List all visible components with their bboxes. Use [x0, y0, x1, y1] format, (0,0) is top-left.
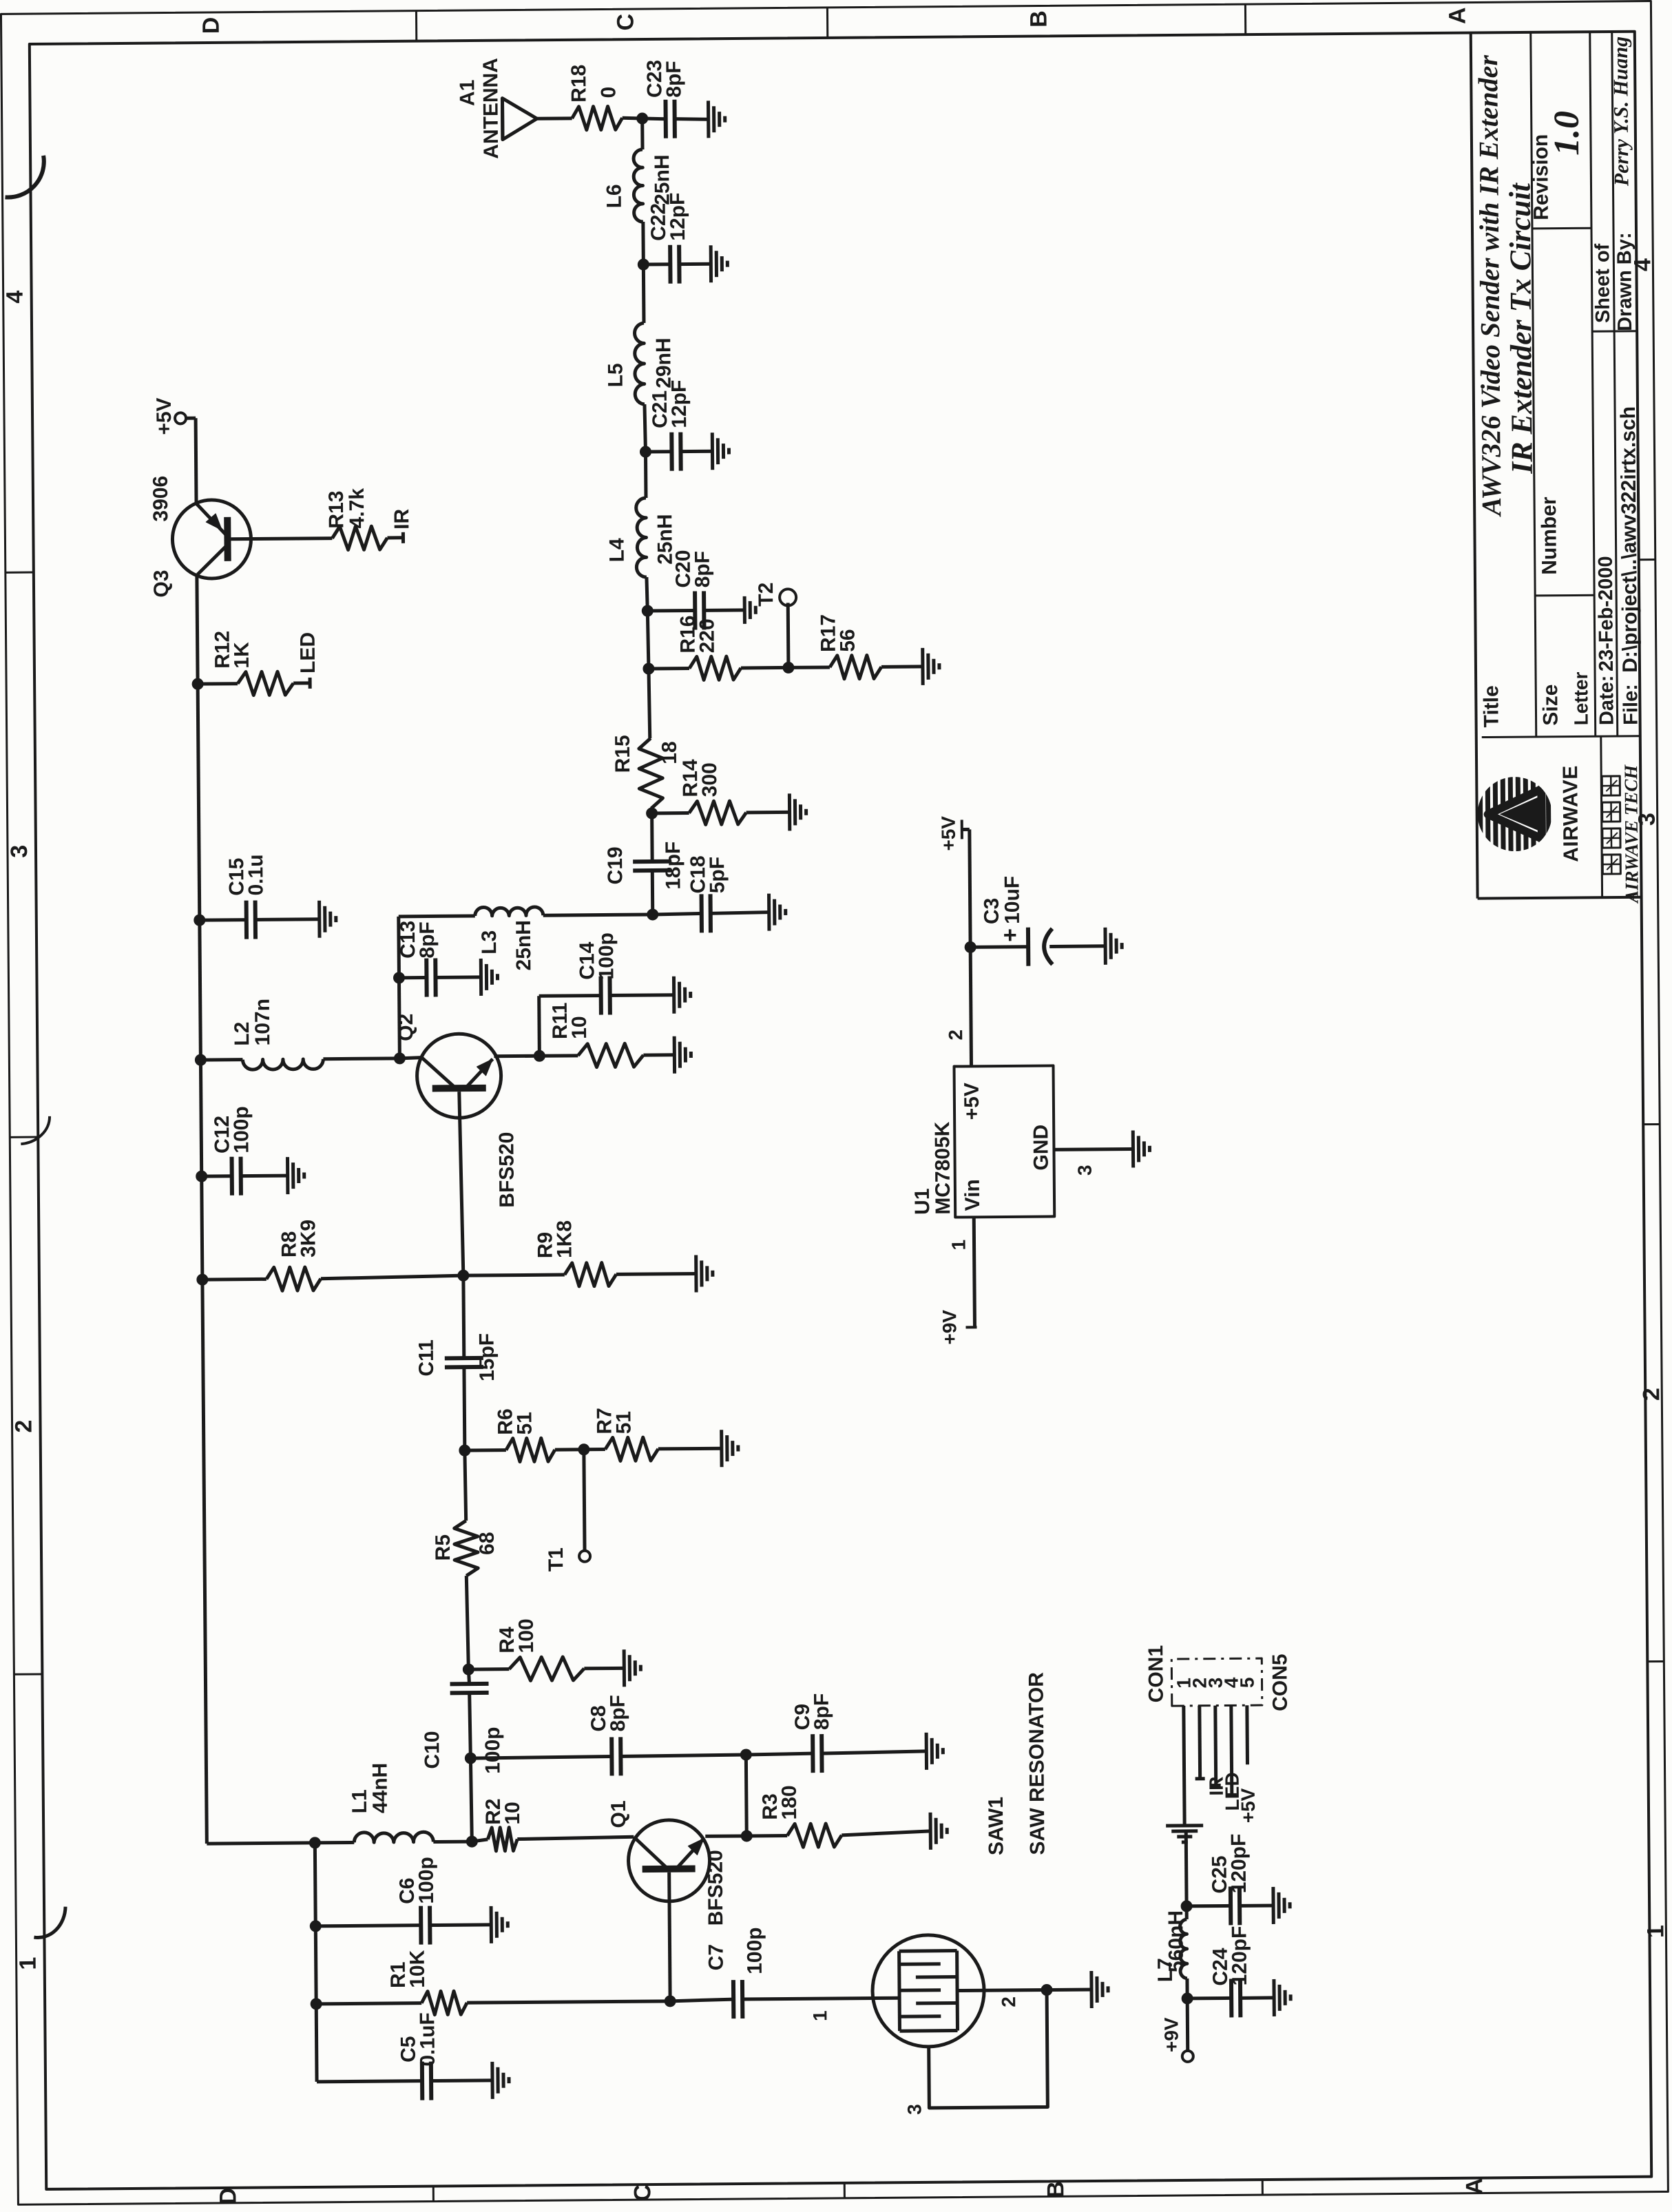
wire SAW pin3 loop [903, 1990, 1047, 2115]
svg-text:Q2: Q2 [395, 1014, 417, 1041]
node C13 tee [394, 1053, 405, 1064]
node N1 R2/C10 [466, 1836, 477, 1847]
resistor R18 0 [567, 64, 623, 130]
svg-text:3: 3 [1074, 1165, 1096, 1176]
title block labels [1476, 134, 1642, 728]
svg-text:L6: L6 [603, 184, 625, 208]
svg-text:100p: 100p [481, 1726, 505, 1774]
svg-text:Q3: Q3 [150, 570, 173, 597]
resistor R2 10 [472, 1798, 525, 1851]
capacitor C25 120pF [1186, 1833, 1273, 1926]
svg-text:560nH: 560nH [1164, 1910, 1188, 1972]
svg-text:2: 2 [945, 1030, 966, 1041]
node R12 junction on rail [192, 678, 203, 689]
ground below R9 [696, 1255, 713, 1292]
wire +5V rail right segment [194, 418, 198, 503]
svg-text:3906: 3906 [149, 476, 173, 522]
svg-text:10: 10 [568, 1016, 591, 1039]
ground below C6 [491, 1906, 508, 1943]
svg-text:100p: 100p [230, 1106, 253, 1154]
test point T1 [544, 1450, 590, 1572]
capacitor C20 8pF [647, 550, 745, 630]
svg-text:A: A [1461, 2178, 1487, 2195]
capacitor C15 0.1u [199, 854, 320, 939]
regulator U1 MC7805K [910, 1065, 1055, 1218]
wire mid line segment c [468, 1669, 469, 1684]
svg-text:100p: 100p [595, 932, 618, 980]
capacitor C3 10uF polar [970, 875, 1105, 967]
wire U1 pin3 GND [1054, 1149, 1133, 1176]
svg-text:BFS520: BFS520 [704, 1850, 727, 1926]
power terminal +9V (U1 in) [939, 1309, 976, 1344]
wire chain f [641, 222, 645, 264]
wire Q3 collector rail (to +5Vsw net) [197, 574, 207, 1844]
svg-text:Letter: Letter [1570, 671, 1592, 725]
svg-text:+9V: +9V [1160, 2017, 1182, 2052]
wire CON1 pin2 net IR [1195, 1705, 1227, 1795]
wire R1 to Q1 base node [467, 2001, 670, 2003]
ground below U1 pin3 [1133, 1130, 1149, 1167]
wire L7 to C24 [1185, 1979, 1189, 1999]
svg-text:300: 300 [698, 762, 721, 797]
ground below C18 [769, 893, 786, 930]
svg-text:1: 1 [1642, 1925, 1669, 1938]
scan artifact arcs [5, 156, 65, 1938]
logo AIRWAVE globe [1480, 774, 1549, 855]
capacitor C19 18pF (series) [604, 813, 685, 890]
node C23 junction [637, 113, 648, 124]
svg-text:0.1u: 0.1u [244, 854, 267, 895]
svg-text:L4: L4 [605, 538, 628, 563]
svg-text:1: 1 [809, 2010, 830, 2021]
resistor R7 51 [583, 1407, 722, 1461]
svg-text:A1: A1 [456, 80, 479, 107]
ground below R11 [674, 1036, 691, 1074]
wire mid line segment a [470, 1758, 472, 1841]
svg-text:SAW RESONATOR: SAW RESONATOR [1025, 1672, 1049, 1855]
svg-text:56: 56 [837, 629, 859, 652]
ground below C24 [1274, 1979, 1290, 2016]
wire L2 to C13 node [323, 1056, 399, 1061]
ground below C14 [673, 977, 690, 1014]
wire chain b [651, 808, 652, 813]
capacitor C5 0.1uF [316, 2012, 492, 2100]
ground below R17 [923, 648, 939, 685]
power terminal +5V (main rail) [153, 397, 196, 435]
svg-text:+5V: +5V [938, 816, 959, 851]
svg-text:2: 2 [10, 1420, 36, 1433]
svg-text:+5V: +5V [961, 1083, 983, 1120]
node R16 junction [643, 663, 654, 674]
resistor R13 4.7k [325, 488, 388, 550]
node R3/C8net junction [741, 1830, 752, 1841]
svg-text:AWV326 Video Sender with IR Ex: AWV326 Video Sender with IR Extender [1472, 54, 1507, 517]
svg-text:C3: C3 [981, 898, 1003, 925]
svg-text:25nH: 25nH [512, 920, 536, 971]
node C24 junction [1182, 1993, 1193, 2004]
CON1 pin 5 [1236, 1677, 1257, 1688]
svg-text:R15: R15 [612, 735, 634, 773]
wire pin2 to ground [1047, 1988, 1091, 1992]
resistor R15 18 (series) [611, 669, 682, 809]
ground below C5 [492, 2062, 509, 2099]
node Q1 base / C7 junction [665, 1996, 676, 2007]
node SAW pin2 junction [1041, 1984, 1052, 1995]
SAW resonator SAW1 [870, 1672, 1050, 2047]
ground below C15 [320, 901, 336, 938]
svg-text:AIRWAVE: AIRWAVE [1559, 765, 1582, 862]
capacitor C18 5pF [652, 855, 769, 933]
wire SAW pin2 down [959, 1990, 1047, 2008]
ground below C23 [708, 101, 724, 138]
svg-text:IR: IR [390, 508, 413, 530]
node T2 tap junction [783, 662, 794, 673]
title text [1472, 54, 1539, 518]
svg-text:IR Extender Tx Circuit: IR Extender Tx Circuit [1503, 182, 1538, 474]
svg-text:4: 4 [2, 291, 28, 304]
node C18/L3 junction [647, 909, 658, 920]
svg-text:8pF: 8pF [811, 1693, 833, 1731]
svg-text:1: 1 [948, 1240, 969, 1251]
svg-text:D: D [215, 2187, 241, 2204]
svg-text:+9V: +9V [939, 1310, 960, 1345]
svg-text:SAW1: SAW1 [985, 1797, 1008, 1855]
wire chain c [647, 611, 649, 669]
node N2 C8 net tee [465, 1753, 476, 1764]
svg-text:107n: 107n [251, 999, 275, 1046]
logo AIRWAVE wordmark [1559, 765, 1582, 862]
svg-text:L3: L3 [478, 930, 501, 954]
resistor R11 10 [539, 1001, 675, 1067]
svg-text:10uF: 10uF [1001, 876, 1024, 924]
ground below C22 [711, 245, 727, 282]
wire CON1 pin4 net +5V [1226, 1705, 1259, 1823]
capacitor C7 100p [669, 1926, 901, 2019]
wire C8 net mid [620, 1755, 746, 1756]
capacitor C10 100p (series) [421, 1684, 505, 1775]
ground below C13 [481, 959, 497, 996]
resistor R5 68 (series) [432, 1521, 499, 1576]
logo airwave tech text [1620, 764, 1642, 905]
capacitor C24 120pF [1187, 1926, 1274, 2018]
svg-text:2: 2 [1638, 1388, 1664, 1401]
svg-text:MC7805K: MC7805K [931, 1121, 954, 1215]
svg-text:51: 51 [612, 1411, 635, 1434]
svg-text:120pF: 120pF [1228, 1926, 1251, 1985]
inductor L4 25nH [605, 452, 676, 578]
node L2 junction on rail [195, 1054, 206, 1065]
capacitor C22 12pF [643, 192, 711, 284]
capacitor C14 100p [539, 932, 674, 1056]
svg-text:B: B [1043, 2181, 1069, 2198]
inductor L2 107n [200, 998, 324, 1070]
svg-text:Number: Number [1538, 497, 1561, 575]
svg-text:10: 10 [501, 1802, 524, 1825]
svg-text:R18: R18 [567, 65, 590, 103]
logo chinese text [1602, 776, 1620, 874]
node R8/R9 junction [458, 1270, 469, 1281]
svg-text:1.0: 1.0 [1547, 111, 1587, 156]
ground below C21 [712, 432, 729, 470]
svg-text:Vin: Vin [961, 1179, 984, 1211]
svg-text:3: 3 [6, 845, 32, 858]
capacitor C9 8pF [746, 1693, 927, 1773]
wire Q3 base lead [231, 539, 332, 539]
node C25 junction [1181, 1901, 1192, 1912]
node C20/T2 junction [642, 605, 653, 616]
svg-text:D:\project\..\awv322irtx.sch: D:\project\..\awv322irtx.sch [1617, 406, 1642, 673]
connector CON1 [1145, 1645, 1262, 1707]
svg-text:8pF: 8pF [416, 921, 439, 959]
revision value [1547, 111, 1587, 156]
svg-text:1K8: 1K8 [553, 1220, 576, 1258]
transistor Q1 BFS520 [607, 1799, 727, 1926]
svg-text:C: C [629, 2184, 656, 2202]
svg-text:Drawn By:: Drawn By: [1613, 232, 1636, 331]
wire C8 net vertical top [470, 1756, 612, 1758]
resistor R8 3K9 [202, 1218, 463, 1291]
svg-text:Q1: Q1 [607, 1800, 630, 1828]
wire CON1 pin1 [1184, 1706, 1184, 1826]
svg-text:AIRWAVE TECH: AIRWAVE TECH [1620, 764, 1642, 905]
svg-text:Date:: Date: [1596, 675, 1618, 725]
capacitor C23 8pF [642, 59, 709, 138]
resistor R6 51 [464, 1408, 584, 1462]
svg-text:T1: T1 [545, 1547, 567, 1572]
wire U1 pin1 Vin [948, 1217, 974, 1327]
CON1 pin 1 [1173, 1678, 1194, 1689]
svg-text:180: 180 [778, 1785, 801, 1819]
svg-text:Size: Size [1539, 685, 1562, 726]
svg-text:15pF: 15pF [476, 1333, 499, 1381]
ground small below C20 [744, 596, 755, 624]
label CON5 [1268, 1653, 1292, 1711]
capacitor C12 100p [201, 1106, 288, 1196]
svg-text:C19: C19 [604, 846, 627, 884]
svg-text:Perry Y.S. Huang: Perry Y.S. Huang [1609, 36, 1633, 187]
svg-text:8pF: 8pF [607, 1695, 629, 1732]
node C9 junction [740, 1749, 751, 1760]
node C12 junction [196, 1171, 207, 1182]
wire rail left corner drop [207, 1843, 315, 1844]
svg-text:0: 0 [597, 87, 620, 98]
node R14 junction [647, 808, 658, 819]
svg-text:4.7k: 4.7k [346, 488, 368, 528]
svg-text:D: D [198, 17, 224, 34]
svg-text:R13: R13 [325, 490, 348, 528]
inductor L5 29nH [603, 264, 676, 405]
svg-text:Sheet: Sheet [1591, 269, 1614, 324]
node C13 branch [393, 972, 404, 983]
ground below C12 [288, 1157, 304, 1194]
ground below R4 [624, 1649, 640, 1687]
svg-text:120pF: 120pF [1227, 1833, 1251, 1893]
ground below C25 [1273, 1887, 1290, 1924]
power terminal +5V (U1 out) [938, 815, 970, 851]
svg-text:BFS520: BFS520 [495, 1131, 519, 1207]
capacitor C8 8pF [587, 1695, 630, 1776]
capacitor C13 8pF [397, 920, 481, 997]
CON1 pin 4 [1220, 1677, 1242, 1688]
wire C13 net horizontal [399, 917, 400, 1058]
svg-text:L5: L5 [604, 363, 627, 387]
svg-text:18pF: 18pF [662, 842, 685, 890]
wire Q2 emitter down [494, 1054, 539, 1058]
svg-text:File:: File: [1620, 684, 1642, 725]
svg-text:5: 5 [1236, 1677, 1257, 1688]
inductor L1 44nH [314, 1762, 472, 1843]
title block frame [1471, 32, 1642, 899]
resistor R17 56 [788, 614, 923, 680]
svg-text:1: 1 [15, 1957, 41, 1970]
capacitor C6 100p [315, 1856, 492, 1945]
CON1 pin 2 [1189, 1678, 1210, 1689]
wire mid line segment d [466, 1576, 468, 1669]
wire CON1 pin5 [1245, 1705, 1249, 1764]
svg-text:23-Feb-2000: 23-Feb-2000 [1595, 556, 1618, 671]
svg-text:51: 51 [513, 1412, 536, 1435]
wire Q1 emitter down [705, 1834, 746, 1837]
svg-text:18: 18 [658, 741, 681, 764]
svg-text:+: + [997, 928, 1023, 942]
svg-text:ANTENNA: ANTENNA [479, 58, 503, 159]
svg-text:C: C [612, 14, 638, 31]
node C3 junction [965, 941, 976, 952]
node C21 junction [640, 446, 651, 457]
svg-text:Title: Title [1480, 685, 1503, 727]
resistor R14 300 [651, 758, 790, 825]
ground below C3 [1105, 928, 1122, 965]
wire chain a [651, 870, 655, 915]
ground below R14 [789, 793, 806, 831]
svg-text:3K9: 3K9 [297, 1220, 320, 1258]
svg-text:100: 100 [515, 1618, 538, 1653]
net stub LED at R12 [293, 632, 320, 689]
node R6/T1 junction [459, 1445, 470, 1456]
svg-text:100p: 100p [743, 1927, 766, 1974]
svg-text:1K: 1K [231, 642, 253, 669]
wire Q1 base lead [669, 1872, 670, 2001]
svg-text:R5: R5 [432, 1534, 454, 1561]
node bias ladder tee [309, 1837, 320, 1848]
svg-text:C7: C7 [705, 1944, 728, 1971]
resistor R16 220 [648, 614, 788, 680]
wire Q2 base lead [459, 1092, 463, 1275]
wire R2 to Q1 [517, 1837, 634, 1839]
svg-text:A: A [1444, 7, 1470, 24]
node R1 junction [311, 1999, 322, 2010]
capacitor C11 15pF (series) [415, 1333, 499, 1382]
svg-text:L2: L2 [231, 1022, 253, 1046]
net stub IR at R13 [387, 508, 413, 543]
resistor R3 180 [746, 1784, 931, 1848]
wire U1 pin2 +5V [943, 829, 972, 1066]
svg-text:3: 3 [903, 2104, 925, 2115]
node R4/R5 junction [463, 1664, 474, 1675]
resistor R4 100 [468, 1618, 625, 1681]
wire mid line segment e [465, 1450, 466, 1521]
pin label 1 SAW [809, 2010, 830, 2021]
svg-text:B: B [1025, 10, 1052, 28]
svg-text:LED: LED [297, 632, 320, 674]
node C6 junction [310, 1921, 321, 1932]
resistor R9 1K8 [463, 1219, 696, 1287]
svg-text:0.1uF: 0.1uF [416, 2012, 439, 2067]
svg-text:L1: L1 [348, 1789, 371, 1813]
svg-text:C11: C11 [415, 1339, 438, 1377]
svg-text:2: 2 [998, 1996, 1019, 2007]
svg-text:8pF: 8pF [662, 61, 685, 98]
wire bias ladder horizontal [315, 1843, 317, 2082]
svg-text:8pF: 8pF [691, 551, 714, 588]
node C22 junction [638, 259, 649, 270]
svg-text:of: of [1591, 243, 1613, 262]
CON1 pin 3 [1204, 1678, 1226, 1689]
ground below C9 [926, 1733, 943, 1770]
wire link to C8 net [744, 1755, 749, 1836]
svg-text:CON1: CON1 [1145, 1645, 1168, 1703]
svg-text:12pF: 12pF [667, 192, 690, 240]
transistor Q2 BFS520 [395, 1012, 519, 1208]
power terminal +9V (filter in) [1160, 1999, 1193, 2062]
inductor L7 560nH [1153, 1906, 1188, 1982]
ground below SAW1 [1091, 1971, 1108, 2008]
svg-text:U1: U1 [911, 1188, 934, 1215]
node R11/C14 junction [534, 1050, 545, 1061]
drawn by value [1609, 36, 1633, 187]
svg-text:CON5: CON5 [1268, 1653, 1292, 1711]
node R8 rail junction [197, 1274, 208, 1285]
svg-text:5pF: 5pF [706, 857, 729, 894]
ground sideways at CON1 pin1 [1166, 1826, 1203, 1842]
svg-text:C10: C10 [421, 1731, 443, 1768]
svg-text:12pF: 12pF [668, 379, 691, 428]
svg-text:T2: T2 [755, 583, 777, 607]
wire chain e [645, 404, 646, 452]
svg-text:+5V: +5V [1237, 1788, 1259, 1823]
svg-text:GND: GND [1030, 1125, 1053, 1171]
wire mid line segment g [461, 1275, 466, 1358]
transistor Q3 (3906 PNP) [149, 475, 251, 598]
svg-text:44nH: 44nH [368, 1763, 392, 1814]
wire +9V filter line [1184, 1831, 1189, 1906]
ground below R3 [930, 1813, 947, 1850]
capacitor C21 12pF [645, 379, 713, 471]
wire R18 to chain node [623, 118, 642, 118]
svg-text:10K: 10K [406, 1950, 429, 1988]
inductor L6 25nH [603, 118, 674, 222]
antenna A1 [456, 57, 572, 159]
inductor L3 25nH [399, 906, 649, 972]
node T1 tap junction [578, 1444, 589, 1455]
wire CON1 pin3 net LED [1211, 1705, 1243, 1811]
resistor R1 10K [316, 1950, 468, 2016]
test point T2 [755, 582, 797, 667]
wire L2 node into Q2 [399, 1058, 421, 1058]
wire chain d [647, 577, 647, 611]
ground below R7 [722, 1430, 738, 1467]
node C15 junction [194, 915, 205, 926]
wire mid line segment f [462, 1366, 466, 1450]
svg-text:220: 220 [696, 618, 718, 653]
svg-text:100p: 100p [415, 1857, 438, 1904]
resistor R12 1K [198, 630, 294, 696]
wire mid line segment b [470, 1691, 471, 1758]
svg-text:68: 68 [476, 1532, 499, 1555]
svg-text:+5V: +5V [153, 397, 176, 435]
